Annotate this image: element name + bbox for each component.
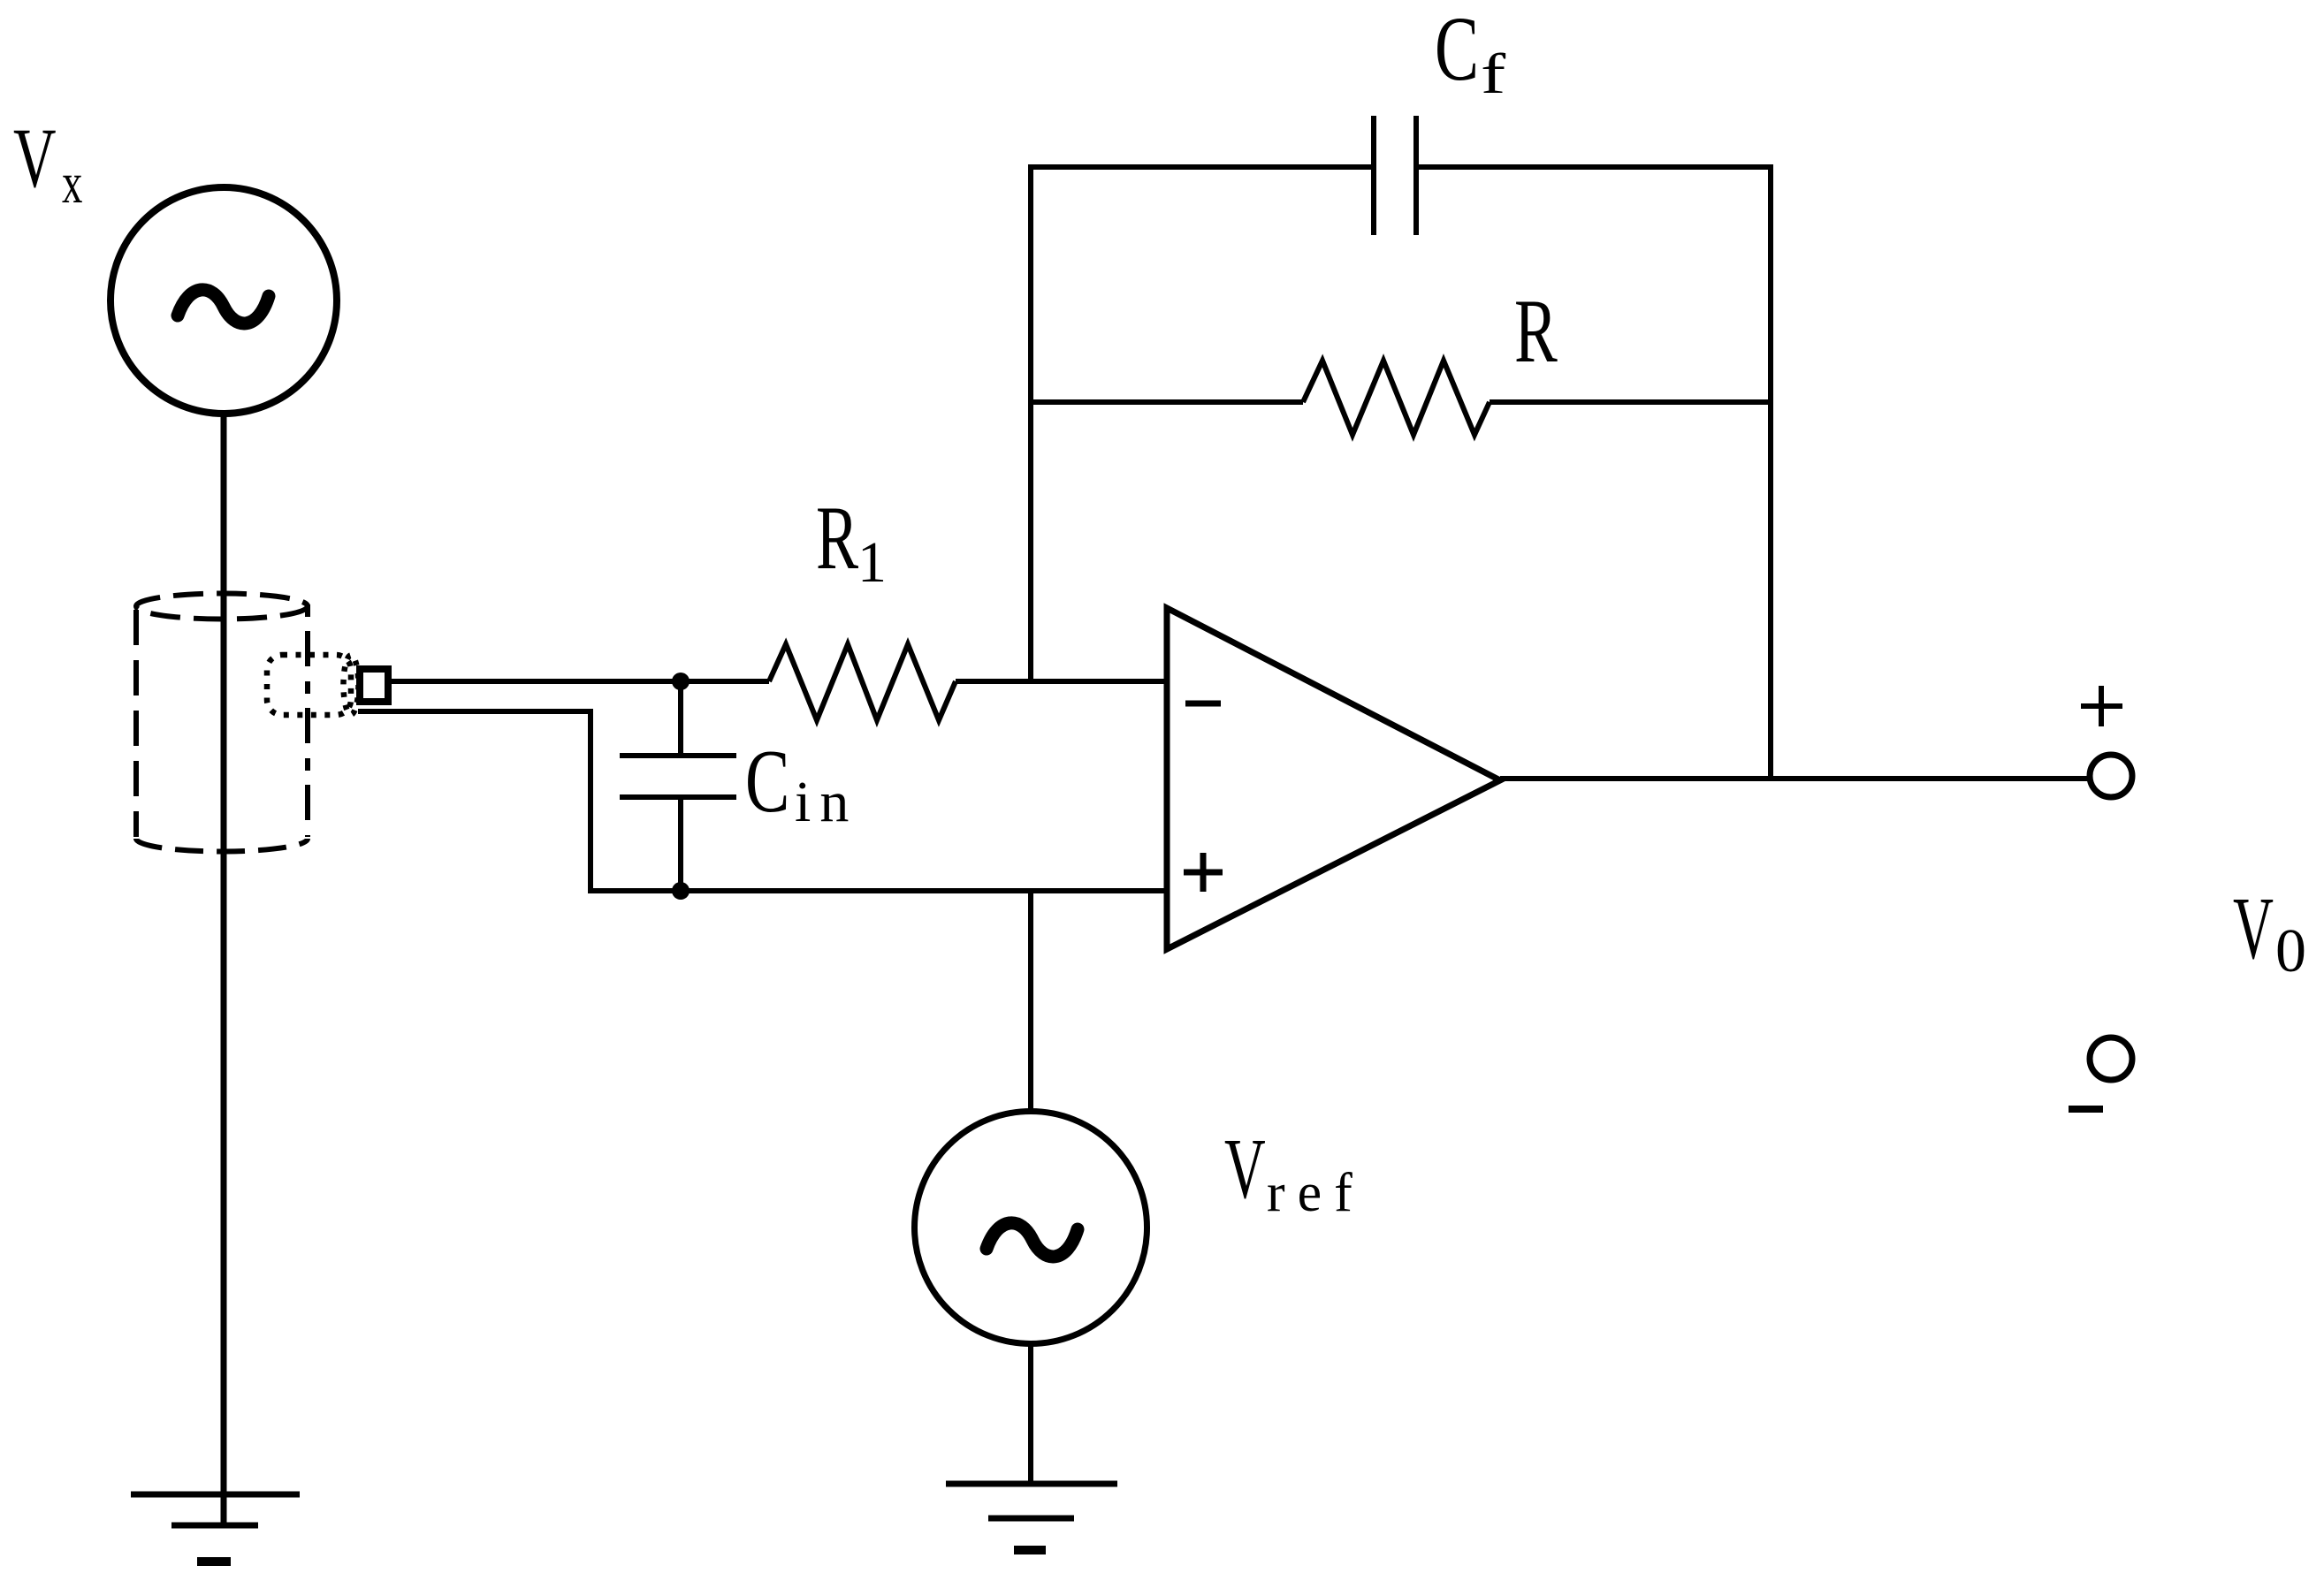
label Vref	[1224, 1121, 1365, 1223]
capacitor Cin	[620, 681, 736, 891]
wire feedback right vertical	[1768, 164, 1773, 779]
wire R1 to op-amp	[956, 679, 1167, 684]
svg-text:x: x	[62, 151, 82, 216]
svg-text:V: V	[1224, 1121, 1266, 1217]
svg-text:V: V	[2233, 879, 2274, 977]
node plus junction dot	[672, 882, 690, 900]
ground (Vref)	[946, 1484, 1117, 1550]
wire Vref vertical top	[1028, 891, 1033, 1110]
shield cylinder (dashed)	[136, 594, 308, 852]
terminal minus circle	[2090, 1038, 2132, 1080]
label Vx	[13, 110, 82, 216]
resistor R1	[769, 644, 956, 720]
resistor R	[1031, 361, 1771, 435]
node input junction dot	[672, 673, 690, 690]
svg-text:V: V	[13, 110, 57, 205]
svg-text:R: R	[1514, 281, 1558, 382]
terminal plus circle	[2090, 755, 2132, 797]
probe terminal square	[360, 669, 388, 702]
wire probe top	[390, 679, 769, 684]
wire probe bottom	[358, 711, 1167, 891]
wire inverting feedback vertical	[1028, 164, 1033, 681]
wire Cf top left	[1028, 164, 1374, 170]
label V0	[2233, 879, 2306, 985]
svg-text:1: 1	[857, 530, 887, 595]
svg-text:C: C	[1435, 0, 1479, 100]
label Cin	[745, 732, 857, 834]
label R1	[816, 489, 887, 595]
svg-text:in: in	[795, 770, 857, 834]
wire Vx vertical	[221, 415, 227, 1527]
svg-text:ref: ref	[1267, 1163, 1365, 1223]
capacitor Cf	[1374, 116, 1416, 235]
wire output	[1500, 776, 2088, 781]
svg-text:f: f	[1481, 42, 1506, 106]
minus sign output	[2069, 1106, 2103, 1113]
plus sign output	[2081, 686, 2122, 726]
wire Cf top right	[1416, 164, 1773, 170]
svg-text:C: C	[745, 732, 789, 832]
wire Vref vertical bottom	[1028, 1345, 1033, 1484]
label Cf	[1435, 0, 1506, 106]
plus pin mark	[1184, 853, 1223, 892]
voltage source Vx	[110, 187, 337, 414]
probe tip (dotted)	[267, 655, 359, 715]
minus pin mark	[1185, 701, 1221, 707]
voltage source Vref	[915, 1112, 1147, 1344]
svg-text:0: 0	[2275, 917, 2306, 985]
ground (left)	[131, 1494, 300, 1562]
op-amp U1	[1167, 608, 1500, 949]
svg-text:R: R	[816, 489, 859, 589]
